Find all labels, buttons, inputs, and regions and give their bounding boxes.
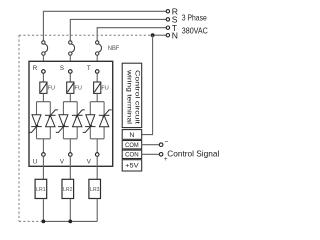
svg-text:S: S (60, 65, 64, 72)
svg-text:FU: FU (101, 86, 108, 92)
wire input to fuse (69, 73, 71, 82)
wire T phase feed (97, 28, 166, 41)
node bus junction 1 (42, 220, 46, 224)
dashed enclosure bottom edge (19, 220, 43, 222)
svg-text:V: V (60, 159, 65, 166)
terminal V output (95, 153, 99, 157)
terminal T (166, 26, 169, 29)
svg-text:+5V: +5V (125, 163, 139, 170)
wire fuse to SCR pair (69, 93, 71, 101)
breaker NBF pole 2 (69, 41, 75, 62)
thyristor Q2b (reverse) (72, 110, 85, 127)
svg-text:−: − (164, 139, 168, 146)
wire output to load (96, 156, 98, 179)
svg-text:COM: COM (125, 142, 139, 149)
wire input to fuse (96, 73, 98, 82)
wire load to bus (69, 199, 71, 222)
terminal N (166, 34, 169, 37)
svg-text:R: R (33, 65, 38, 72)
wire N solid to terminal (153, 34, 167, 36)
fuse FU2 (67, 82, 74, 93)
terminal block cell COM (122, 141, 142, 149)
svg-text:LR2: LR2 (63, 187, 73, 193)
terminal block cell CON (122, 150, 142, 158)
wire S phase feed (70, 19, 166, 40)
terminal R (166, 10, 169, 13)
svg-text:T: T (87, 65, 91, 72)
wire fuse to SCR pair (42, 93, 44, 101)
SCR module box (29, 61, 113, 166)
SCR pair 2 branch frame (63, 102, 77, 153)
wire fuse to SCR pair (96, 93, 98, 101)
terminal block cell N (122, 130, 142, 140)
wire load to bus (96, 199, 98, 222)
svg-text:380VAC: 380VAC (182, 26, 208, 36)
load LR1 box (35, 179, 47, 198)
thyristor Q2a (forward) (56, 115, 69, 133)
breaker NBF pole 3 (96, 41, 102, 62)
wire N drop to terminal block (142, 35, 153, 134)
wire input to fuse (42, 73, 44, 82)
svg-text:Control Signal: Control Signal (167, 148, 219, 158)
terminal signal minus (159, 143, 163, 147)
SCR pair 1 branch frame (37, 102, 51, 153)
node bus junction 2 (68, 220, 72, 224)
svg-text:V: V (87, 159, 92, 166)
svg-text:FU: FU (48, 86, 55, 92)
terminal block header cell (122, 63, 142, 127)
breaker NBF pole 1 (42, 41, 48, 62)
terminal S (166, 18, 169, 21)
terminal T input (95, 70, 99, 74)
wire COM to signal- (142, 144, 160, 146)
thyristor Q1b (reverse) (45, 110, 58, 127)
svg-text:LR3: LR3 (90, 187, 100, 193)
terminal R input (42, 70, 46, 74)
svg-text:Control circuit: Control circuit (134, 70, 141, 124)
terminal V output (69, 153, 73, 157)
wire output to load (69, 156, 71, 179)
svg-text:CON: CON (125, 152, 139, 159)
SCR pair 3 branch frame (90, 102, 104, 153)
load LR3 box (89, 179, 101, 198)
fuse FU1 (40, 82, 47, 93)
svg-text:wiring terminal: wiring terminal (126, 69, 133, 125)
fuse FU3 (94, 82, 101, 93)
wire R phase feed (43, 11, 166, 41)
wire bottom bus (43, 220, 97, 222)
svg-text:N: N (172, 30, 178, 40)
svg-text:3 Phase: 3 Phase (182, 13, 207, 23)
terminal S input (69, 70, 73, 74)
terminal signal plus (159, 153, 163, 157)
wire CON to signal+ (142, 153, 160, 155)
terminal block cell +5V (122, 160, 142, 171)
dashed enclosure left edge (18, 35, 20, 221)
load LR2 box (62, 179, 74, 198)
svg-text:FU: FU (75, 86, 82, 92)
svg-text:LR1: LR1 (36, 187, 46, 193)
wire output to load (42, 156, 44, 179)
terminal U output (42, 153, 46, 157)
thyristor Q3b (reverse) (99, 110, 112, 127)
svg-text:U: U (33, 159, 37, 166)
node N junction (151, 33, 155, 37)
wire load to bus (42, 199, 44, 222)
thyristor Q3a (forward) (83, 115, 96, 133)
thyristor Q1a (forward) (29, 115, 42, 133)
svg-text:N: N (129, 132, 134, 139)
svg-text:NBF: NBF (108, 46, 120, 52)
wire N line / dashed enclosure top (19, 34, 153, 36)
